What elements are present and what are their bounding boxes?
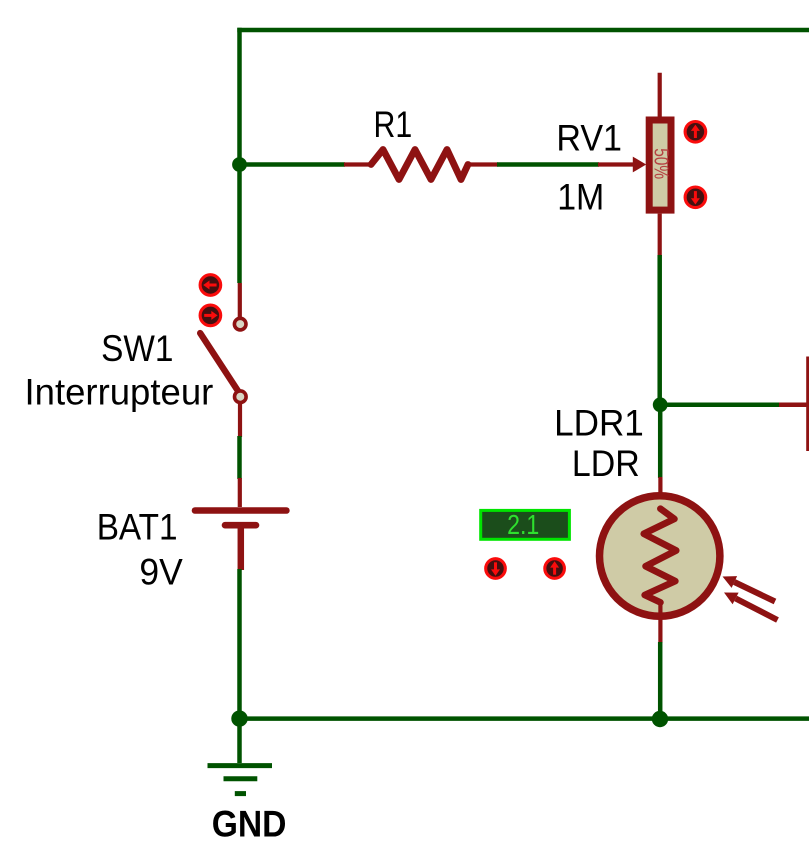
svg-text:Interrupteur: Interrupteur	[25, 372, 214, 413]
label SW1	[101, 328, 173, 369]
svg-text:50%: 50%	[649, 148, 671, 179]
LDR light arrow lower	[724, 593, 778, 621]
switch SW1	[200, 283, 246, 437]
ground	[208, 719, 273, 794]
button LDR up	[545, 559, 565, 579]
wire junction to LDR green	[658, 405, 663, 478]
svg-text:9V: 9V	[139, 551, 183, 592]
transistor base bar at right edge (clipped)	[806, 357, 809, 452]
node junction bottom left	[231, 710, 247, 726]
button LDR down	[486, 559, 506, 579]
svg-text:SW1: SW1	[101, 328, 173, 369]
label BAT1	[97, 506, 178, 547]
label LDR1	[554, 403, 644, 444]
svg-text:LDR1: LDR1	[554, 403, 644, 444]
LDR value display 2.1	[481, 509, 570, 540]
resistor R1	[344, 150, 498, 180]
label Interrupteur	[25, 372, 214, 413]
wire LDR bottom green	[658, 642, 663, 719]
label LDR	[572, 443, 640, 484]
wire left vertical top segment	[237, 28, 242, 283]
node junction at R1 branch	[232, 157, 247, 172]
label 9V	[139, 551, 183, 592]
wire RV1 bottom to junction green	[657, 255, 662, 406]
svg-text:R1: R1	[374, 104, 413, 145]
svg-text:LDR: LDR	[572, 443, 640, 484]
button RV1 up	[685, 122, 706, 143]
label 50% (pot position)	[649, 148, 671, 179]
LDR light arrow upper	[723, 576, 776, 601]
svg-text:1M: 1M	[557, 177, 604, 218]
svg-text:2.1: 2.1	[507, 509, 539, 540]
wire red pin to edge component	[779, 403, 809, 408]
potentiometer RV1	[598, 73, 671, 256]
button SW1 left	[200, 275, 221, 296]
button RV1 down	[685, 187, 706, 208]
wire top rail	[237, 28, 809, 33]
label 1M	[557, 177, 604, 218]
photoresistor LDR1	[600, 477, 720, 643]
label GND	[212, 803, 287, 844]
wire bottom rail	[240, 716, 809, 721]
button SW1 right	[200, 305, 221, 326]
wire battery to bottom rail green	[237, 569, 242, 721]
wire junction to right edge green	[660, 403, 780, 408]
svg-text:RV1: RV1	[556, 118, 622, 159]
wire R1 branch horizontal green left	[240, 162, 346, 167]
battery BAT1	[195, 478, 286, 570]
node junction bottom LDR	[652, 711, 668, 727]
node junction LDR top	[653, 397, 668, 412]
svg-text:GND: GND	[212, 803, 287, 844]
label R1	[374, 104, 413, 145]
wire switch to battery green	[237, 436, 242, 479]
label RV1	[556, 118, 622, 159]
wire R1 to RV1 wiper green	[497, 162, 599, 167]
svg-text:BAT1: BAT1	[97, 506, 178, 547]
